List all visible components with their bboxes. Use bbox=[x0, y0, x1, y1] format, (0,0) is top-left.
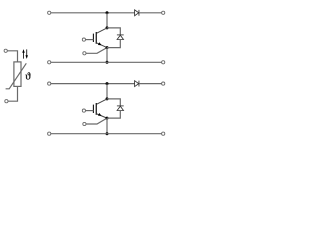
diode D3 (series, rail3) bbox=[135, 81, 139, 87]
wire emitter vertical bbox=[106, 48, 108, 63]
node J1 (collector to rail1) bbox=[106, 11, 109, 14]
node J2 (collector/diode) bbox=[106, 26, 109, 29]
wire aux emitter bbox=[86, 48, 107, 54]
wire rail3 right segment bbox=[139, 83, 162, 85]
diode D2 (freewheel) bbox=[117, 35, 124, 40]
node J5 (collector to rail3) bbox=[106, 82, 109, 85]
label theta bbox=[25, 72, 30, 79]
arrow up (temperature) bbox=[22, 49, 25, 59]
wire aux emitter 2 bbox=[86, 118, 107, 124]
wire emitter vertical 2 bbox=[106, 118, 108, 134]
wire rail1 left segment bbox=[51, 12, 135, 14]
thermistor R1 body bbox=[14, 62, 21, 87]
wire diode branch top bbox=[107, 28, 120, 35]
thermistor R1 NTC diagonal bbox=[6, 63, 27, 89]
wire diode branch top 2 bbox=[107, 99, 120, 106]
node J8 (emitter to rail4) bbox=[106, 132, 109, 135]
wire diode branch bottom bbox=[107, 40, 120, 48]
arrow down (resistance) bbox=[25, 49, 28, 59]
terminal 3 (rail2 left) bbox=[48, 61, 51, 64]
diode D1 (series, rail1) bbox=[135, 10, 139, 16]
wire collector vertical bbox=[106, 13, 108, 28]
wire collector vertical 2 bbox=[106, 84, 108, 99]
terminal 4 (rail2 right) bbox=[162, 61, 165, 64]
transistor Q2 (IGBT) bbox=[86, 99, 108, 118]
terminal 1 (rail1 left) bbox=[48, 11, 51, 14]
diode D4 (freewheel) bbox=[117, 106, 124, 111]
wire diode branch bottom 2 bbox=[107, 111, 120, 119]
node J7 (emitter 2) bbox=[106, 117, 109, 120]
wire rail1 right segment bbox=[139, 12, 162, 14]
node J4 (emitter to rail2) bbox=[106, 61, 109, 64]
node J6 (collector/diode 2) bbox=[106, 97, 109, 100]
wire thermistor bottom lead bbox=[8, 86, 18, 101]
terminal T3 (thermistor bottom) bbox=[5, 100, 8, 103]
terminal 5 (rail3 left) bbox=[48, 82, 51, 85]
terminal 8 (rail4 right) bbox=[162, 132, 165, 135]
wire thermistor top lead bbox=[7, 51, 17, 62]
terminal 7 (rail4 left) bbox=[48, 132, 51, 135]
wire rail2 bbox=[51, 61, 162, 63]
terminal 2 (rail1 right) bbox=[162, 11, 165, 14]
wire rail4 bbox=[51, 133, 162, 135]
node J3 (emitter) bbox=[106, 46, 109, 49]
terminal G2 (gate) bbox=[82, 109, 85, 112]
transistor Q1 (IGBT) bbox=[86, 28, 108, 48]
terminal 6 (rail3 right) bbox=[162, 82, 165, 85]
terminal G1 (gate) bbox=[82, 38, 85, 41]
terminal E2 (aux emitter) bbox=[83, 122, 86, 125]
terminal T4 (thermistor top) bbox=[4, 49, 7, 52]
wire rail3 left segment bbox=[51, 83, 135, 85]
terminal E1 (aux emitter) bbox=[83, 52, 86, 55]
